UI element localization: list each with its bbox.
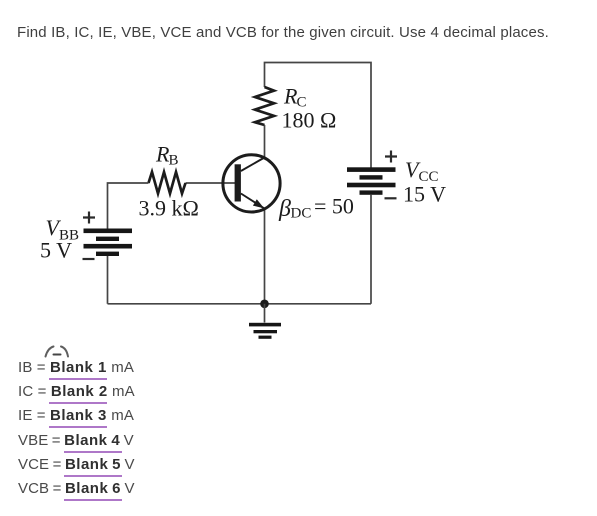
blank 3 underline xyxy=(49,426,107,428)
label VCC value 15 V xyxy=(403,182,446,207)
svg-text:B: B xyxy=(169,153,179,169)
answer line IE xyxy=(18,407,134,424)
svg-text:β: β xyxy=(278,196,291,222)
label VBB value 5 V xyxy=(40,238,72,263)
answer line VBE xyxy=(18,432,134,449)
wire bottom rail xyxy=(108,303,372,305)
battery VCC xyxy=(347,167,396,194)
svg-text:= 50: = 50 xyxy=(314,194,354,219)
wire VBB to bottom rail xyxy=(107,256,109,304)
blank 5 underline xyxy=(64,475,122,477)
svg-text:180 Ω: 180 Ω xyxy=(282,108,337,133)
label beta value BDC = 50 xyxy=(278,194,354,223)
blank 4 underline xyxy=(64,451,122,453)
wire VCC to bottom rail xyxy=(370,195,372,304)
resistor RB xyxy=(149,172,186,194)
battery VBB xyxy=(84,229,133,257)
label RC value 180 ohm xyxy=(282,108,337,133)
svg-text:DC: DC xyxy=(291,206,312,222)
wire RC to Q1 collector xyxy=(264,125,266,158)
svg-text:5 V: 5 V xyxy=(40,238,72,263)
answer line IB xyxy=(18,359,134,376)
label VBB minus xyxy=(83,258,95,260)
partial icon above answers xyxy=(46,347,69,357)
label RB value 3.9 kohm xyxy=(139,196,199,221)
blank 2 underline xyxy=(49,402,107,404)
wire RB to left rail xyxy=(108,183,149,229)
answer line IC xyxy=(18,383,135,400)
wire base RB to Q1 xyxy=(186,182,236,184)
node ground junction xyxy=(260,300,269,309)
blank 1 underline xyxy=(49,378,107,380)
label RC designator xyxy=(283,84,307,111)
resistor RC xyxy=(255,87,274,125)
wire top rail collector supply xyxy=(265,63,372,168)
wire Q1 emitter to ground node xyxy=(264,209,266,303)
svg-text:15 V: 15 V xyxy=(403,182,446,207)
label VBB designator xyxy=(46,215,80,244)
answer line VCE xyxy=(18,456,135,473)
blank 6 underline xyxy=(64,499,122,501)
label VCC minus xyxy=(385,197,397,199)
label RB designator xyxy=(155,142,179,169)
answer line VCB xyxy=(18,480,135,497)
svg-text:3.9 kΩ: 3.9 kΩ xyxy=(139,196,199,221)
label VBB plus xyxy=(83,212,95,224)
ground xyxy=(249,304,281,339)
transistor Q1 xyxy=(223,155,280,212)
label VCC designator xyxy=(405,157,439,185)
label VCC plus xyxy=(385,151,397,163)
